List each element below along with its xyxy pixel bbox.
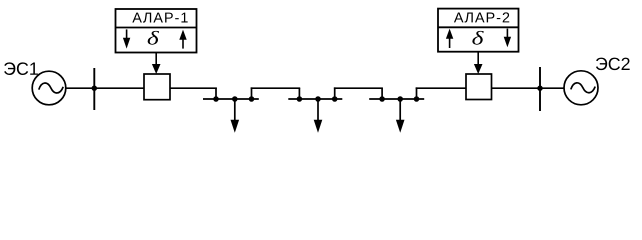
tap 2 node B <box>315 96 321 102</box>
tap 3 load arrow <box>396 99 405 133</box>
wire: tap 1 to tap 2 <box>251 87 301 89</box>
arrow from АЛАР-2 to measuring box <box>474 52 483 74</box>
tap 2 node C <box>332 96 338 102</box>
arrow from АЛАР-1 to measuring box <box>152 53 161 75</box>
generator G2 (ЭС2) circle <box>564 71 598 105</box>
label АЛАР-2 <box>454 12 509 22</box>
wire: square box 2 to G2 <box>492 87 565 89</box>
tap 1: lower bus <box>203 98 259 100</box>
junction node at bus 1 <box>92 86 97 91</box>
wire: tap 3 to square box 2 <box>416 87 467 89</box>
АЛАР-1 down arrow (left) <box>123 29 130 48</box>
measuring element box (square) near АЛАР-1 <box>144 74 170 100</box>
tap 1 load arrow <box>231 99 240 133</box>
tap 3 node A <box>379 96 385 102</box>
tap 3: rise wire <box>416 87 418 99</box>
tap 1: drop wire <box>215 88 217 99</box>
generator G2 sine wave <box>571 83 595 93</box>
junction node at bus 2 <box>537 86 542 91</box>
tap 1: rise wire <box>251 87 253 99</box>
generator G1 (ЭС1) circle <box>32 71 66 105</box>
tap 2: rise wire <box>334 87 336 99</box>
wire: tap 2 to tap 3 <box>334 87 383 89</box>
tap 2 load arrow <box>314 99 323 133</box>
tap 3: lower bus <box>369 98 424 100</box>
АЛАР-1 up arrow (right) <box>179 30 186 49</box>
label АЛАР-1 <box>132 13 187 23</box>
bus bar 2 (vertical) <box>539 67 541 111</box>
wire: G1 to square box 1 <box>66 87 145 89</box>
tap 1 node C <box>249 96 255 102</box>
tap 2: drop wire <box>298 88 300 99</box>
bus bar 1 (vertical) <box>93 68 95 110</box>
tap 1 node A <box>213 96 219 102</box>
label ЭС2 <box>596 58 630 71</box>
label ЭС1 <box>4 62 38 75</box>
АЛАР-2 delta symbol <box>472 31 483 45</box>
device box АЛАР-1 <box>116 9 197 53</box>
tap 2 node A <box>297 96 303 102</box>
АЛАР-1 delta symbol <box>148 31 159 45</box>
tap 2: lower bus <box>288 98 342 100</box>
АЛАР-2 up arrow (left) <box>446 29 453 48</box>
wire: square box 1 to tap 1 <box>170 87 217 89</box>
tap 3 node C <box>414 96 420 102</box>
generator G1 sine wave <box>39 83 63 93</box>
measuring element box (square) near АЛАР-2 <box>466 74 492 100</box>
tap 1 node B <box>232 96 238 102</box>
tap 3 node B <box>397 96 403 102</box>
device box АЛАР-2 <box>438 9 519 52</box>
АЛАР-2 down arrow (right) <box>504 29 511 48</box>
tap 3: drop wire <box>381 88 383 99</box>
